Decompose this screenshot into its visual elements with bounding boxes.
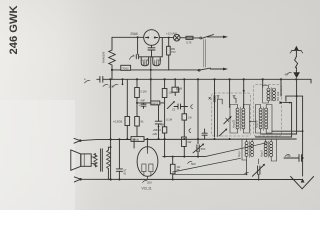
node rail156 x172 (172, 156, 174, 158)
svg-text:500: 500 (201, 147, 206, 151)
wire T1-T2 link (249, 120, 255, 122)
wire (168, 38, 170, 47)
RF coil shield box 2 (dashed) (254, 85, 282, 137)
svg-text:+: + (132, 54, 134, 58)
ballast tube 25A6 circle (144, 30, 160, 46)
rectifier anode loop 2 (153, 57, 160, 66)
coil T3 mains choke (262, 79, 264, 87)
ground earth symbol (301, 179, 305, 183)
variable capacitor C 500 (196, 145, 198, 152)
resistor on x127 (0.5 GB) (125, 117, 130, 126)
node x110 y179 (110, 178, 112, 180)
antenna symbol (295, 51, 297, 57)
node x302 y131 (302, 130, 304, 132)
svg-text:+0,5GB: +0,5GB (113, 120, 122, 124)
wire winding top lead (108, 147, 110, 150)
wire bus B2 upper mains rail (112, 69, 198, 71)
wire rail y156 (163, 156, 205, 158)
node B1 x296 antenna tap (295, 78, 297, 80)
wire T1 winding loops (230, 105, 238, 134)
wire vertical x291 (291, 103, 293, 137)
wire corner into box1 left (217, 95, 219, 97)
transformer T1 IF coils (236, 108, 239, 129)
resistor small on x164 (162, 127, 166, 133)
wire (159, 37, 173, 39)
wire (193, 37, 200, 39)
node x296 y96 (296, 95, 298, 97)
svg-text:0W: 0W (161, 124, 165, 127)
svg-text:1W: 1W (187, 140, 191, 144)
fuse 0,75 (186, 36, 193, 39)
node rail156 x184 (183, 156, 185, 158)
terminal fork lower (74, 177, 80, 182)
capacitor 0.5 to ground (284, 157, 299, 159)
wire (180, 37, 186, 39)
svg-text:5W(k): 5W(k) (132, 138, 139, 142)
svg-text:7062: 7062 (122, 67, 129, 71)
svg-text:GB: GB (177, 90, 181, 93)
wire nested link y131 (272, 130, 303, 132)
IF transformer shield box 1 (dashed) (212, 93, 251, 136)
node rail y139 junctions (110, 138, 112, 140)
node B1 x164 (164, 78, 166, 80)
wire shunt to rail B2 (168, 55, 170, 70)
resistor 1W on x175 stub (174, 79, 176, 87)
svg-text:~MF: ~MF (152, 132, 158, 136)
wire vertical x127 (126, 79, 128, 139)
wire vertical x214 (214, 79, 216, 137)
trimmer x mark (209, 97, 211, 99)
wire speaker to transformer (91, 153, 95, 157)
node B1 x229 (229, 78, 231, 80)
wire winding bottom lead (107, 169, 109, 180)
wire vertical x110 B1 to output stage (110, 79, 112, 179)
svg-text:+MF10: +MF10 (153, 128, 162, 132)
wire stub x122 (122, 79, 124, 84)
transformer output secondary winding (107, 150, 111, 168)
trimmer arrow A (224, 117, 231, 124)
wire bottom rail y179 (81, 178, 247, 180)
svg-text:246 GWK: 246 GWK (8, 5, 20, 54)
capacitor mains input series (97, 78, 100, 80)
wire vertical x150 (150, 79, 152, 101)
label ~500 arrow (188, 161, 193, 163)
svg-text:Kng L: Kng L (238, 150, 241, 157)
wire right-side network (280, 79, 282, 96)
node B1 x198 (197, 78, 199, 80)
node B1 x262 (262, 78, 264, 80)
node branch/x137 (136, 102, 138, 104)
label squiggle near T4 (244, 172, 249, 174)
node B1 x122 (122, 78, 124, 80)
capacitor grid coupling row (174, 106, 178, 108)
tube VCL11 output (133, 139, 135, 148)
transformer T2 IF coils (259, 108, 262, 129)
node B1 x110 (109, 78, 111, 80)
svg-text:Kng S: Kng S (261, 150, 264, 157)
wire rectifier cathode to B1 (150, 57, 152, 80)
svg-text:+: + (139, 103, 141, 107)
svg-text:U Y11: U Y11 (141, 58, 149, 62)
capacitor under ballast + wire (151, 45, 153, 47)
resistor 5W(k) in rail (131, 137, 144, 142)
resistor 1W 65 on x172 (172, 157, 174, 165)
node B1 x243 (243, 78, 245, 80)
transformer core (100, 149, 102, 172)
variable capacitor C2 tuning (257, 166, 259, 174)
node B1 x137 (136, 78, 138, 80)
svg-text:Kng (3): Kng (3) (233, 120, 236, 128)
wire top left from dropper to ballast tube (112, 36, 144, 38)
node rail156 x164 (164, 156, 166, 158)
wire down to smoothing cap (137, 37, 139, 54)
wire vertical x229 (229, 79, 231, 107)
svg-text:0Y2: 0Y2 (171, 50, 176, 54)
node x289 y102 (289, 102, 291, 104)
wire rail y139 screen/anode feed (80, 139, 296, 141)
transformer T5 oscillator coils (264, 142, 267, 157)
wire vertical x302 to ground (302, 96, 304, 176)
mains plug prong upper (208, 36, 225, 38)
wire diagonal gang link D2 (173, 158, 241, 172)
wire to rectifier anode line (161, 38, 163, 57)
wire vertical x217 (217, 99, 219, 136)
switch mains pole 2 (198, 69, 200, 71)
wire vertical x164 (164, 79, 166, 156)
label a (input) (85, 80, 91, 83)
switch mechanical link (203, 40, 205, 68)
wire bus B1 main rail (103, 78, 311, 80)
node B1 x281 (280, 78, 282, 80)
rectifier anode loop 1 (141, 57, 148, 66)
resistor MB 0.42 lamp shunt (167, 46, 171, 55)
svg-text:1W: 1W (188, 117, 192, 120)
node B1 x184 (183, 78, 185, 80)
tube rectifier assembly (130, 56, 135, 60)
wire vertical x198 (197, 79, 199, 144)
svg-text:0,1M: 0,1M (166, 118, 173, 122)
svg-text:0W12: 0W12 (152, 101, 159, 105)
svg-text:VCL11: VCL11 (142, 187, 152, 191)
wire corner into box1 right (233, 95, 235, 97)
node B2/dropper junction (111, 69, 113, 71)
jack hook upper (191, 105, 193, 109)
wire vertical x184 (183, 79, 185, 114)
node x243 y90 (243, 90, 245, 92)
terminal fork upper (74, 138, 80, 143)
label ~220 mains arrow (113, 84, 119, 87)
node x110 y147 (110, 146, 112, 148)
svg-text:0,1M: 0,1M (141, 90, 148, 94)
capacitor to rail x204 (204, 129, 206, 133)
lamp dial +12(A)V (174, 34, 181, 41)
jack hook lower (189, 129, 191, 133)
speaker LS (71, 150, 81, 170)
label ~200 and VCL11 (143, 180, 148, 182)
trimmer arrow B (219, 129, 226, 136)
svg-text:Kng W: Kng W (256, 120, 259, 128)
resistor RHA0209 heater dropper zigzag (111, 37, 113, 50)
capacitor in line x158 (155, 120, 162, 122)
node B1 x150 (150, 78, 152, 80)
resistor 5k lower on x137 (135, 117, 140, 127)
wire B2 to B1 (111, 70, 113, 79)
wire vertical x137 (136, 79, 138, 139)
transformer output primary winding (94, 153, 97, 167)
wire diagonal gang link D1 (205, 143, 267, 157)
svg-text:CA8: CA8 (156, 58, 162, 62)
arrow connector left (280, 101, 284, 104)
label ~220 (103, 84, 108, 86)
svg-text:05: 05 (288, 154, 292, 158)
resistor 1W on x184 (182, 114, 187, 120)
wire AVC line y174 (173, 173, 247, 175)
svg-text:500 GW: 500 GW (277, 91, 280, 101)
wire nested link y137 (255, 136, 291, 138)
resistor 10k on x164 (162, 89, 167, 98)
svg-text:RHA0209: RHA0209 (102, 51, 106, 63)
svg-text:200: 200 (147, 181, 152, 185)
svg-text:+12 (A)V: +12 (A)V (166, 31, 177, 35)
potentiometer arrow (167, 102, 174, 109)
wire vertical x243 to coil T1 (243, 79, 245, 107)
resistor 0.1M on x137 (135, 88, 140, 98)
svg-text:500: 500 (191, 162, 196, 166)
svg-text:~MF: ~MF (140, 99, 146, 103)
resistor 0W12 on branch (151, 101, 160, 105)
node rail156 x198 (197, 156, 199, 158)
resistor 7062 in rail B2 (121, 65, 131, 70)
wire T2 winding loops (255, 105, 260, 134)
transformer T4 oscillator coils (245, 142, 248, 157)
svg-text:25A6: 25A6 (130, 32, 138, 36)
svg-text:0,75: 0,75 (186, 41, 192, 45)
node B1 x175 (174, 78, 176, 80)
svg-text:45: 45 (285, 72, 288, 76)
switch mains pole 1 (200, 37, 202, 39)
wire branch y103 (137, 102, 165, 104)
node on heater wire (137, 36, 139, 38)
wire nested link y134 (261, 133, 297, 135)
node lamp-shunt tap (168, 37, 170, 39)
node B1 x214 (213, 78, 215, 80)
capacitor 5000 coupling x119 (118, 139, 120, 169)
mains plug prong lower (210, 68, 224, 70)
